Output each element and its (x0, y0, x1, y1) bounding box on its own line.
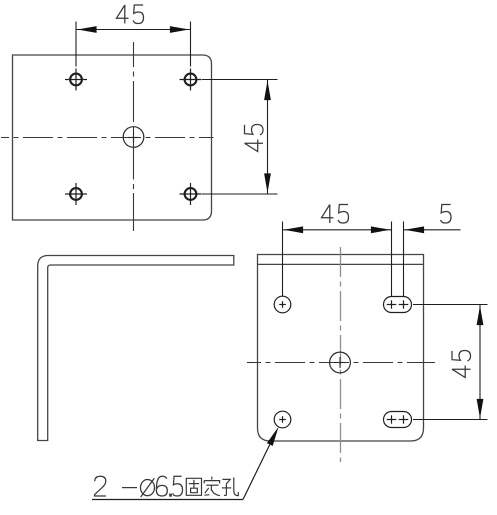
glyph gu (solid) (186, 478, 201, 495)
text 45 right view3 (rotated) (452, 351, 471, 378)
glyph ding (fix) (204, 477, 220, 496)
glyph kong (hole) (222, 477, 239, 495)
bend line view3 (258, 263, 424, 265)
horizontal centerline view3 (247, 362, 435, 364)
glyph dash (122, 487, 137, 489)
hole H1 top-left view1 (65, 69, 87, 91)
center hole view3 (330, 352, 351, 373)
hole H5 top-left view3 (274, 296, 291, 313)
hole H4 bottom-right view1 (180, 183, 202, 205)
dimension 45 right of view1 (202, 80, 278, 195)
arrowhead up right dim view3 (477, 306, 484, 325)
dimension 45 top of view1 (76, 22, 191, 67)
arrowhead left top dim view1 (77, 26, 96, 33)
vertical centerline view3 (gray) (340, 247, 342, 462)
arrowhead down right dim view1 (264, 173, 271, 192)
plate top-view outline (view 1) (13, 55, 212, 220)
dimension 45 top of view3 (283, 222, 461, 297)
hole H2 top-right view1 (180, 69, 202, 91)
slot bottom-right view3 (384, 412, 412, 428)
label text 2 - dia 6.5 fixing holes (95, 476, 183, 497)
plate bottom-view outline (view 3) (258, 255, 424, 442)
glyph phi (141, 480, 155, 496)
text 45 top view3 (322, 205, 349, 224)
arrowhead up right dim view1 (264, 81, 271, 100)
hole H6 bottom-left view3 (274, 411, 291, 428)
dimension 45 right of view3 (413, 305, 488, 420)
glyph 2 (95, 476, 107, 496)
leader arrowhead (267, 427, 279, 446)
horizontal centerline view1 (1, 137, 214, 139)
vertical centerline view1 (133, 42, 135, 231)
slot top-right view3 (384, 297, 412, 313)
text 5 top view3 (441, 205, 451, 224)
glyph point (170, 494, 172, 496)
arrowhead down right dim view3 (477, 399, 484, 418)
arrowhead 5 dim view3 (405, 226, 424, 233)
hole H3 bottom-left view1 (65, 183, 87, 205)
L-bracket side view outline (view 2) (38, 256, 234, 441)
glyph 6 (156, 476, 167, 496)
text 45 top view1 (117, 5, 144, 24)
arrowhead right top dim view3 (371, 226, 390, 233)
text 45 right view1 (rotated) (245, 125, 264, 152)
label underline (92, 499, 243, 501)
glyph 5 (173, 476, 183, 496)
leader line to hole H6 (243, 445, 270, 500)
arrowhead right top dim view1 (170, 26, 189, 33)
arrowhead left top dim view3 (284, 226, 303, 233)
center hole view1 (123, 127, 144, 148)
